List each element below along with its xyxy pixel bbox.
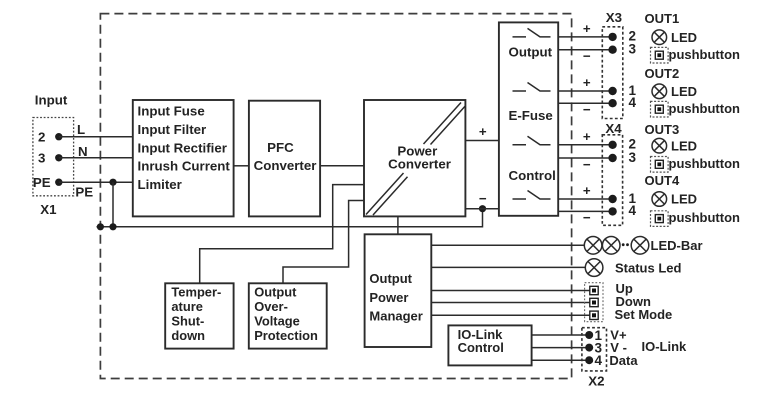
wire temperature shutdown control	[200, 185, 364, 284]
svg-text:LED: LED	[671, 30, 697, 45]
junction dot minus rail	[479, 205, 486, 212]
wire IO-Link V-	[532, 347, 590, 349]
connector X3 dashed box	[602, 27, 623, 119]
terminal dot X3-4	[608, 99, 616, 107]
terminal dot X4-2	[608, 141, 616, 149]
connector X4 dashed box	[602, 135, 622, 226]
svg-text:3: 3	[629, 42, 637, 57]
converter symbol diagonals bottom left	[366, 173, 404, 215]
wire to Up button	[431, 290, 590, 292]
svg-text:+: +	[583, 21, 591, 36]
svg-text:pushbutton: pushbutton	[669, 47, 741, 62]
svg-text:E-Fuse: E-Fuse	[509, 108, 553, 123]
svg-text:Inrush Current: Inrush Current	[138, 159, 231, 174]
svg-text:Output: Output	[254, 284, 297, 299]
wire to LED bar	[431, 244, 584, 246]
switch S2	[513, 83, 551, 92]
wire IO-Link Data	[532, 359, 590, 361]
LED bar lamp 2	[602, 237, 620, 255]
switch S4	[513, 191, 551, 200]
wire OUT2 plus	[558, 90, 612, 92]
terminal dot X1-2	[55, 133, 62, 140]
wire input stage to PFC	[234, 165, 249, 167]
svg-text:X2: X2	[588, 373, 604, 388]
terminal dot X1-PE	[55, 179, 62, 186]
converter symbol diagonals top right	[424, 103, 462, 145]
connector X1 dotted box	[33, 118, 74, 196]
junction dot bus-frame	[97, 223, 104, 230]
wire OUT4 plus	[558, 198, 612, 200]
svg-text:N: N	[78, 144, 88, 159]
svg-text:Set Mode: Set Mode	[615, 307, 673, 322]
svg-text:Status Led: Status Led	[615, 260, 682, 275]
svg-text:−: −	[479, 191, 487, 206]
svg-text:Input Filter: Input Filter	[138, 122, 207, 137]
svg-text:+: +	[479, 124, 487, 139]
buttons dashed group box	[585, 283, 603, 322]
svg-text:Control: Control	[458, 340, 504, 355]
pushbutton OUT2	[651, 101, 669, 117]
terminal dot X2-1	[585, 331, 593, 339]
terminal dot X2-3	[585, 344, 593, 352]
svg-text:Output: Output	[369, 271, 412, 286]
wire L	[59, 136, 133, 138]
svg-text:LED: LED	[671, 84, 697, 99]
svg-text:−: −	[583, 49, 591, 64]
wire OUT1 minus	[558, 49, 612, 51]
pushbutton OUT1	[651, 47, 669, 63]
terminal dot X4-4	[608, 207, 616, 215]
svg-text:Shut-: Shut-	[171, 313, 204, 328]
LED bar lamp 1	[584, 237, 602, 255]
svg-text:4: 4	[629, 203, 637, 218]
svg-text:pushbutton: pushbutton	[669, 101, 741, 116]
svg-text:Data: Data	[609, 353, 638, 368]
wire OVP control	[283, 201, 364, 284]
svg-text:4: 4	[629, 95, 637, 110]
switch S1	[513, 28, 551, 37]
LED indicator OUT4	[652, 192, 667, 207]
svg-text:down: down	[171, 328, 205, 343]
svg-text:Output: Output	[509, 45, 553, 60]
svg-text:2: 2	[38, 129, 45, 144]
switch S3	[513, 136, 551, 145]
svg-text:−: −	[583, 157, 591, 172]
svg-text:PFC: PFC	[267, 140, 294, 155]
wire to status led	[431, 266, 585, 268]
button Up	[590, 286, 598, 294]
svg-text:pushbutton: pushbutton	[669, 210, 741, 225]
svg-text:Temper-: Temper-	[171, 284, 221, 299]
terminal dot X4-1	[608, 195, 616, 203]
block input stage	[133, 100, 234, 216]
svg-text:PE: PE	[75, 185, 93, 200]
svg-text:X4: X4	[605, 121, 622, 136]
svg-text:Input Fuse: Input Fuse	[138, 104, 205, 119]
block output power manager	[365, 234, 432, 347]
svg-text:+: +	[583, 129, 591, 144]
svg-text:LED: LED	[671, 192, 697, 207]
wire N	[59, 157, 133, 159]
terminal dot X3-3	[608, 46, 616, 54]
svg-text:Manager: Manager	[369, 309, 422, 324]
wire IO-Link V+	[532, 334, 590, 336]
wire converter to output power manager	[397, 216, 399, 234]
enclosure dashed frame	[100, 14, 571, 379]
svg-text:L: L	[77, 122, 85, 137]
terminal dot X3-1	[608, 87, 616, 95]
wire minus rail	[465, 208, 499, 210]
block e-fuse unit	[499, 22, 558, 215]
terminal dot X4-3	[608, 154, 616, 162]
svg-text:−: −	[583, 210, 591, 225]
block output over-voltage protection	[249, 283, 327, 348]
svg-text:OUT1: OUT1	[645, 11, 680, 26]
status LED	[585, 259, 603, 277]
pushbutton OUT4	[651, 211, 669, 227]
block power converter	[364, 100, 465, 216]
LED indicator OUT2	[652, 84, 667, 99]
terminal dot X3-2	[608, 33, 616, 41]
svg-text:Control: Control	[509, 168, 556, 183]
svg-text:Protection: Protection	[254, 328, 318, 343]
svg-text:LED: LED	[671, 138, 697, 153]
svg-text:OUT2: OUT2	[645, 66, 680, 81]
wire to Set Mode button	[431, 314, 590, 316]
svg-text:3: 3	[38, 150, 45, 165]
wire PE	[59, 181, 133, 183]
svg-text:+: +	[583, 183, 591, 198]
svg-text:pushbutton: pushbutton	[669, 156, 741, 171]
pushbutton OUT3	[651, 157, 669, 173]
wire OUT3 plus	[558, 144, 612, 146]
svg-text:X3: X3	[606, 10, 622, 25]
svg-text:Power: Power	[369, 290, 408, 305]
LED indicator OUT3	[652, 138, 667, 153]
svg-text:Converter: Converter	[388, 156, 451, 171]
wire PFC to power converter	[320, 165, 364, 167]
svg-text:Converter: Converter	[254, 158, 317, 173]
svg-text:PE: PE	[33, 175, 51, 190]
svg-text:X1: X1	[40, 202, 57, 217]
PE junction dot	[109, 179, 116, 186]
wire PE drop	[112, 182, 114, 227]
svg-text:4: 4	[595, 353, 603, 368]
block PFC converter	[249, 101, 320, 217]
svg-text:−: −	[583, 102, 591, 117]
wire OUT3 minus	[558, 157, 612, 159]
svg-text:IO-Link: IO-Link	[642, 339, 688, 354]
wire plus rail	[465, 140, 499, 142]
button Down	[590, 298, 598, 306]
block temperature shutdown	[165, 283, 233, 348]
ellipsis dots	[622, 243, 625, 246]
wire OUT2 minus	[558, 102, 612, 104]
svg-text:Voltage: Voltage	[254, 313, 300, 328]
svg-text:Limiter: Limiter	[138, 177, 182, 192]
wire OUT4 minus	[558, 210, 612, 212]
svg-text:OUT4: OUT4	[645, 173, 680, 188]
block IO-Link control	[448, 325, 531, 365]
LED indicator OUT1	[652, 30, 667, 45]
button Set Mode	[590, 311, 598, 319]
svg-text:OUT3: OUT3	[645, 122, 680, 137]
svg-text:Over-: Over-	[254, 299, 288, 314]
wire to Down button	[431, 302, 590, 304]
LED bar lamp 3	[631, 237, 649, 255]
terminal dot X2-4	[585, 356, 593, 364]
terminal dot X1-3	[55, 154, 62, 161]
svg-text:+: +	[583, 75, 591, 90]
svg-text:ature: ature	[171, 299, 203, 314]
svg-text:LED-Bar: LED-Bar	[651, 238, 703, 253]
junction dot bus-PE	[109, 223, 116, 230]
svg-text:Input: Input	[35, 93, 68, 108]
svg-text:Input Rectifier: Input Rectifier	[138, 140, 227, 155]
wire OUT1 plus	[558, 36, 612, 38]
wire PE bus	[97, 209, 483, 227]
svg-text:3: 3	[629, 150, 637, 165]
connector X2 dashed box	[582, 328, 607, 371]
